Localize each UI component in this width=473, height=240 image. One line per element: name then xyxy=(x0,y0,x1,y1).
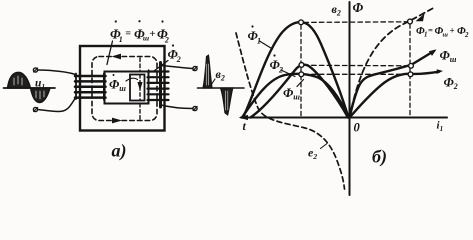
curve Phi2(t) xyxy=(251,65,349,118)
flux Phi1 dashed loop xyxy=(92,57,157,121)
svg-text:е2: е2 xyxy=(308,146,317,162)
wire from secondary winding to bottom output terminal xyxy=(161,105,193,109)
secondary winding W2 xyxy=(148,63,169,108)
leader from title Phi1 to flux loop xyxy=(107,41,113,65)
curve Phi1(t) xyxy=(243,22,349,117)
label Phi2(t) xyxy=(270,54,284,74)
svg-text:Φ: Φ xyxy=(353,0,364,15)
curve e2(t) dashed xyxy=(236,33,345,189)
leader from Phi_sh label to flux line xyxy=(126,78,138,81)
source u1 sine baseline xyxy=(4,87,56,89)
u1 half-wave texture xyxy=(14,76,22,85)
svg-text:Φ2: Φ2 xyxy=(444,75,458,92)
flux Phi1 loop arrow bottom (pointing right) xyxy=(112,118,122,124)
node circle Phi2 peak left xyxy=(299,63,304,68)
node circle Phi2 right xyxy=(408,72,413,77)
arrowhead Phi_sh(i1) xyxy=(429,49,437,56)
shunt flux arrow (down) xyxy=(137,82,142,91)
flux Phi1 loop arrow top (pointing left) xyxy=(112,54,122,60)
svg-text:2: 2 xyxy=(176,55,181,64)
svg-text:2: 2 xyxy=(464,31,469,39)
primary winding W1 xyxy=(75,74,106,100)
time axis with left arrow xyxy=(241,117,447,119)
output e2 waveform baseline xyxy=(198,87,245,89)
output e2 negative peak xyxy=(221,88,233,115)
curve Phi_sh(t) xyxy=(242,74,349,118)
svg-text:ш: ш xyxy=(443,31,449,38)
e2 peaks texture xyxy=(206,64,208,85)
wire from bottom input terminal to primary winding xyxy=(38,98,76,112)
svg-text:Φш: Φш xyxy=(440,48,457,65)
title Phi1 = Phi_sh + Phi2 xyxy=(110,20,169,44)
dashed horizontal Phi2 peak level xyxy=(304,64,409,67)
node circle Phi1 right xyxy=(408,19,413,24)
svg-text:а): а) xyxy=(112,141,127,162)
arrowhead Phi2(i1) xyxy=(437,69,444,74)
output terminal bottom xyxy=(193,106,197,110)
svg-text:в2: в2 xyxy=(216,67,225,83)
svg-text:б): б) xyxy=(372,147,387,168)
node circle Phi1 peak left xyxy=(299,20,304,25)
shunt gap narrow rectangle xyxy=(130,75,145,101)
svg-text:1: 1 xyxy=(119,35,123,44)
svg-text:i1: i1 xyxy=(437,120,444,134)
node circle Phi_sh right xyxy=(409,63,414,68)
source u1 negative half-wave xyxy=(31,88,51,103)
svg-text:u1: u1 xyxy=(35,78,45,92)
shunt flux dashed line xyxy=(139,58,141,72)
svg-text:t: t xyxy=(243,119,247,133)
leader e2 xyxy=(321,144,328,149)
magnetic shunt inner box xyxy=(105,72,149,104)
svg-text:=: = xyxy=(428,25,433,35)
leader Phi1 xyxy=(260,41,273,49)
source u1 positive half-wave xyxy=(8,72,31,88)
svg-text:=: = xyxy=(125,29,131,40)
arrowhead Phi1(i1) xyxy=(416,14,425,22)
vertical axis e2 / Phi xyxy=(349,2,351,195)
svg-text:Φш: Φш xyxy=(283,85,300,102)
svg-text:в2: в2 xyxy=(332,2,341,18)
svg-text:1: 1 xyxy=(424,31,428,39)
wire from secondary winding to top output terminal xyxy=(161,66,193,69)
node circle Phi_sh left xyxy=(299,72,304,77)
curve Phi2(i1) xyxy=(350,72,440,118)
wire from top input terminal to primary winding xyxy=(38,70,76,75)
dashed horizontal Phi_sh level xyxy=(304,73,408,75)
input terminal bottom xyxy=(33,107,37,111)
output e2 positive peak xyxy=(203,55,212,88)
label Phi2 top right of core xyxy=(168,44,181,64)
leader Phi_sh xyxy=(297,80,304,87)
label Phi1=Phish+Phi2 (right) xyxy=(416,25,469,39)
input terminal top xyxy=(33,68,37,72)
svg-text:Φш: Φш xyxy=(109,77,126,94)
leader tick for v2 xyxy=(211,79,215,85)
svg-text:2: 2 xyxy=(164,35,169,44)
svg-text:+: + xyxy=(450,25,455,35)
transformer core outer box xyxy=(80,46,165,131)
label Phi1(t) xyxy=(248,25,262,45)
svg-text:+: + xyxy=(149,28,155,40)
dashed horizontal Phi1 level xyxy=(304,21,408,24)
output terminal top xyxy=(193,66,197,70)
curve Phi1(i1) dashed xyxy=(350,9,433,118)
leader Phi2 xyxy=(281,70,295,77)
curve Phi_sh(i1) xyxy=(350,51,435,118)
svg-text:0: 0 xyxy=(354,121,361,135)
dashed vertical at flux peaks (left) xyxy=(300,25,302,117)
dashed vertical at operating point (right) xyxy=(409,24,411,117)
svg-text:ш: ш xyxy=(143,34,149,43)
leader from Phi2 label to flux loop xyxy=(154,61,168,72)
